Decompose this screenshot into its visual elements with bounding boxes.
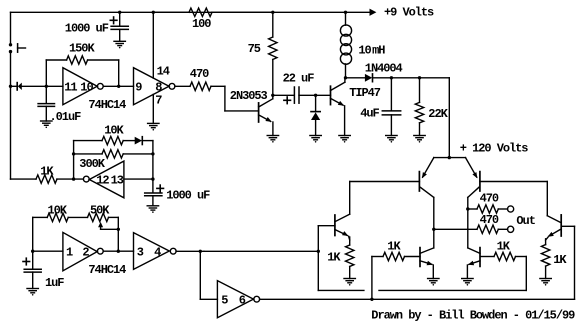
svg-text:2N3053: 2N3053 — [230, 89, 268, 103]
junction TIP47 base node — [314, 94, 317, 97]
node +120V junction — [448, 156, 451, 159]
transistor Q5 far-left NPN driver — [334, 215, 336, 236]
resistor 75 — [272, 12, 274, 37]
wire osc1 input — [33, 250, 63, 252]
junction phase A node — [317, 250, 320, 253]
junction rail-75 — [271, 11, 274, 14]
wire +9V top rail — [11, 11, 370, 13]
transistor Q1 2N3053 — [258, 103, 260, 122]
polarity + 22uF — [284, 99, 291, 101]
ground pin 7 — [148, 122, 159, 124]
svg-text:.01uF: .01uF — [50, 110, 82, 124]
wire phase A riser/dropper — [317, 226, 319, 291]
svg-text:Drawn by - Bill Bowden - 01/15: Drawn by - Bill Bowden - 01/15/99 — [371, 308, 575, 322]
junction osc2 300K tap — [72, 152, 75, 155]
svg-text:1K: 1K — [497, 240, 511, 254]
svg-text:470: 470 — [190, 67, 209, 81]
transistor Q4 upper-right PNP — [466, 158, 477, 178]
svg-text:11: 11 — [64, 81, 77, 95]
svg-text:4: 4 — [154, 246, 161, 260]
resistor 22K bleeder — [418, 76, 421, 79]
svg-text:+ 120 Volts: + 120 Volts — [460, 141, 529, 155]
wire +120V feed — [448, 78, 450, 158]
svg-text:10: 10 — [80, 81, 93, 95]
wire pin 7 to ground — [152, 94, 154, 123]
potentiometer 50K — [88, 213, 109, 221]
svg-text:1K: 1K — [327, 251, 341, 265]
wire osc2 feedback riser — [73, 141, 75, 180]
wire inverter 12/13 input — [124, 178, 153, 180]
ground Q7 emitter — [462, 278, 473, 280]
svg-text:12: 12 — [96, 174, 109, 188]
node Out terminal lower — [508, 226, 514, 232]
resistor 470 lower output — [434, 228, 477, 230]
ground base clamp diode — [310, 135, 321, 137]
svg-text:22 uF: 22 uF — [283, 72, 315, 86]
op-amp U1C inverter 12/13 74HC14 (pointing left) — [89, 161, 124, 198]
svg-text:1N4004: 1N4004 — [365, 61, 403, 75]
svg-text:+9 Volts: +9 Volts — [384, 5, 434, 19]
capacitor 1000uF osc2 — [145, 192, 162, 194]
svg-text:22K: 22K — [428, 107, 448, 121]
wire osc1 output — [103, 250, 133, 252]
polarity + 1000uF top — [110, 19, 117, 21]
inductor L1 10mH — [345, 12, 347, 25]
wire osc1 feedback right leg — [117, 217, 119, 251]
svg-text:9: 9 — [135, 81, 142, 95]
capacitor 22uF coupling — [273, 94, 295, 96]
op-amp U1D inverter 1/2 74HC14 — [63, 232, 97, 270]
svg-text:1K: 1K — [387, 240, 401, 254]
junction input node — [9, 85, 12, 88]
ground 1uF — [27, 288, 38, 290]
wire Q4 collector drop — [467, 197, 469, 248]
svg-text:10K: 10K — [104, 124, 124, 138]
capacitor 1000uF top — [119, 12, 121, 26]
svg-text:4uF: 4uF — [360, 107, 379, 121]
wire HV node — [346, 77, 365, 79]
wire phase A jumper continues — [379, 289, 526, 291]
wire touch-plate line upper segment — [10, 12, 12, 43]
svg-text:7: 7 — [155, 93, 162, 107]
svg-text:1000 uF: 1000 uF — [166, 189, 210, 203]
wire Q3 collector drop — [433, 197, 435, 248]
svg-text:TIP47: TIP47 — [349, 86, 381, 100]
wire diode to gate 11 input — [22, 85, 63, 87]
op-amp U1A inverter 11/10 74HC14 — [63, 68, 97, 105]
svg-text:10K: 10K — [48, 204, 68, 218]
diode D2 base clamp (cathode up) — [315, 95, 317, 111]
transistor Q3 upper-left PNP — [423, 158, 434, 178]
junction lower 470 node — [432, 228, 435, 231]
svg-text:1000 uF: 1000 uF — [65, 21, 109, 35]
capacitor .01uF — [45, 86, 47, 103]
svg-text:3: 3 — [137, 246, 144, 260]
junction phase B node — [370, 298, 373, 301]
junction osc1 input node — [31, 250, 34, 253]
ground 22K — [414, 135, 425, 137]
wire 470 to 2N3053 base — [211, 85, 225, 87]
pot 50K wiper arrow — [98, 222, 103, 227]
wire TIP47 emitter to ground — [344, 106, 346, 136]
ground 1000uF top — [114, 40, 125, 42]
junction rail-inductor — [344, 11, 347, 14]
ground Q6 emitter — [428, 278, 439, 280]
ground 4uF — [386, 135, 397, 137]
svg-text:150K: 150K — [69, 42, 95, 56]
resistor 1K far-left emitter — [349, 236, 350, 240]
ground 2N3053 emitter — [267, 135, 278, 137]
wire osc2 cap riser — [152, 154, 154, 193]
wire Q5 collector to Q3 base — [349, 182, 351, 215]
svg-text:1K: 1K — [553, 253, 567, 267]
capacitor 1uF osc1 — [32, 251, 34, 269]
polarity + 1000uF osc2 — [157, 187, 164, 189]
wire Q8 base — [561, 225, 574, 227]
svg-text:470: 470 — [480, 213, 499, 227]
wire Q3 base link — [350, 181, 420, 183]
wire Q8 collector to Q4 base — [546, 182, 548, 216]
wire Q6 emitter to ground — [432, 265, 434, 279]
wire inverter 3/4 output — [176, 250, 204, 252]
svg-text:74HC14: 74HC14 — [88, 263, 126, 277]
op-amp U1E inverter 3/4 74HC14 — [134, 233, 170, 270]
svg-text:1K: 1K — [40, 164, 54, 178]
junction rail-1000uF — [118, 11, 121, 14]
diode D1 input (cathode left) — [11, 85, 18, 87]
transistor Q6 mid-left NPN — [419, 248, 421, 267]
junction osc1 output node — [117, 250, 120, 253]
transistor Q7 mid-right NPN — [479, 248, 481, 267]
wire Q5 base — [318, 225, 335, 227]
svg-text:300K: 300K — [79, 157, 105, 171]
resistor 10K osc2 with diode — [74, 140, 102, 142]
wire phase B bus — [260, 298, 575, 300]
op-amp U1F inverter 5/6 74HC14 — [217, 281, 253, 318]
wire gate1 output — [103, 85, 133, 87]
junction osc2 output node — [72, 177, 75, 180]
svg-text:Out: Out — [516, 214, 535, 228]
wire touch-plate line lower segment — [10, 53, 12, 179]
resistor 300K osc2 — [74, 153, 102, 155]
wire Q4 base link — [480, 181, 547, 183]
ground .01uF — [41, 120, 52, 122]
node Out terminal upper — [508, 206, 514, 212]
op-amp U1B inverter 9/8 74HC14 — [134, 68, 170, 105]
switch S1 touch contact — [9, 43, 12, 46]
wire pin 14 supply — [152, 12, 154, 78]
svg-text:1: 1 — [66, 246, 73, 260]
svg-text:100: 100 — [192, 17, 211, 31]
wire osc1 feedback left leg — [32, 217, 34, 251]
svg-text:10: 10 — [358, 44, 371, 58]
ground 1K far-right — [540, 278, 551, 280]
node gate1 output junction — [117, 85, 120, 88]
diode D4 osc2 (pointing right) — [123, 140, 135, 142]
resistor 1K far-right emitter — [546, 237, 548, 240]
wire Q7 emitter to ground — [466, 265, 468, 279]
ground 1000uF osc2 — [147, 205, 158, 207]
junction upper 470 node — [466, 207, 469, 210]
junction collector node — [271, 94, 274, 97]
junction buffer split node — [199, 250, 202, 253]
resistor 470 upper output — [468, 208, 477, 210]
svg-text:5: 5 — [221, 294, 228, 308]
svg-text:74HC14: 74HC14 — [88, 98, 126, 112]
transistor Q2 TIP47 — [330, 86, 332, 104]
node +9 Volts arrow — [370, 9, 377, 16]
svg-text:470: 470 — [480, 192, 499, 206]
resistor 10K osc1 — [33, 216, 48, 218]
resistor 1K mid-left base — [372, 256, 383, 258]
svg-text:mH: mH — [372, 44, 385, 58]
resistor 470 drive — [175, 85, 190, 87]
ground 1K far-left — [344, 278, 355, 280]
junction inductor bottom / collector node — [344, 76, 347, 79]
svg-text:14: 14 — [157, 65, 170, 79]
ground TIP47 emitter — [339, 135, 350, 137]
svg-text:50K: 50K — [90, 204, 110, 218]
resistor 1K mid-right base — [516, 256, 527, 258]
diode D3 1N4004 — [365, 74, 372, 82]
capacitor 4uF filter — [390, 76, 393, 79]
resistor 100 — [153, 11, 189, 13]
junction rail-pin14 — [152, 11, 155, 14]
svg-text:6: 6 — [239, 294, 246, 308]
svg-text:2: 2 — [82, 246, 89, 260]
wire phase B riser — [371, 257, 373, 300]
transistor Q8 far-right NPN driver — [560, 215, 562, 236]
svg-text:1uF: 1uF — [45, 276, 64, 290]
resistor 150K feedback — [45, 60, 47, 86]
wire output node osc2 — [11, 178, 37, 180]
wire 2N3053 emitter to ground — [272, 122, 274, 136]
wire phase A drive — [204, 250, 318, 252]
junction cap node osc2 — [151, 177, 154, 180]
svg-text:75: 75 — [248, 42, 261, 56]
wire to inverter 5/6 input — [199, 251, 201, 299]
polarity + 1uF — [23, 261, 30, 263]
node gate1 input junction — [45, 85, 48, 88]
resistor 1K osc2 — [36, 175, 57, 183]
junction 300K right node — [151, 152, 154, 155]
junction wiper node — [117, 228, 120, 231]
svg-text:13: 13 — [111, 174, 124, 188]
